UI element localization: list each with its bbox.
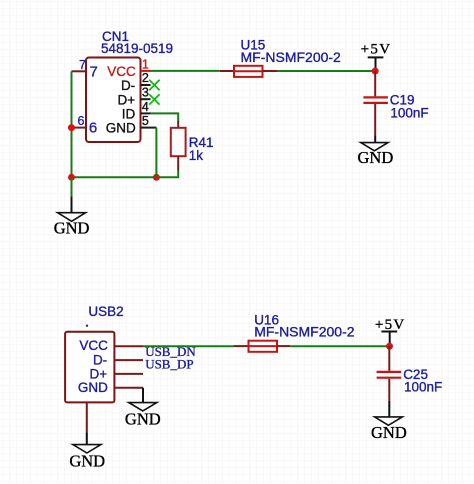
- ground bottom left symbol: [73, 445, 101, 453]
- capacitor C25 bottom lead: [388, 379, 390, 401]
- small dot marker near USB2: [86, 325, 88, 327]
- wire fuse U16 to +5V node: [290, 345, 389, 347]
- resistor R41 body: [171, 128, 186, 156]
- capacitor C25 top lead: [388, 346, 390, 371]
- capacitor C19 top lead: [374, 71, 376, 96]
- svg-text:7: 7: [79, 58, 86, 72]
- wire VCC to fuse U16: [143, 345, 234, 347]
- wire junction down to ground: [71, 177, 73, 197]
- ground under GND pin symbol: [129, 403, 157, 411]
- svg-text:USB2: USB2: [88, 304, 123, 319]
- ground under C25 stub: [388, 401, 390, 417]
- pin 4 stub: [141, 112, 151, 114]
- pin 1 stub: [141, 70, 151, 72]
- svg-text:54819-0519: 54819-0519: [101, 41, 173, 56]
- junction at pin 6: [68, 124, 75, 131]
- svg-text:7: 7: [90, 64, 98, 81]
- no-connect X on pin 2: [149, 80, 159, 90]
- fuse U16 left lead: [234, 345, 249, 347]
- svg-text:VCC: VCC: [107, 64, 136, 79]
- svg-text:ID: ID: [122, 107, 136, 122]
- capacitor C25 plates: [377, 372, 402, 378]
- pin 3 stub: [141, 98, 151, 100]
- junction at bottom left: [68, 174, 75, 181]
- junction at +5V top: [372, 68, 379, 75]
- ground under C19 stub: [374, 135, 376, 142]
- connector CN1 body: [86, 58, 141, 143]
- connector USB2 body: [65, 332, 114, 403]
- D+ pin stub of USB2: [114, 373, 143, 375]
- svg-text:2: 2: [142, 71, 149, 85]
- pin 5 stub: [141, 127, 157, 129]
- capacitor C19 bottom lead: [374, 104, 376, 135]
- svg-text:100nF: 100nF: [390, 106, 428, 121]
- svg-text:GND: GND: [69, 451, 105, 470]
- ground under CN1 symbol: [58, 213, 86, 222]
- shield pin of USB2: [86, 402, 88, 432]
- ground under C25 symbol: [375, 417, 403, 425]
- wire from pin 7 down left side: [71, 71, 73, 177]
- wire fuse U15 to +5V node: [277, 70, 375, 72]
- fuse U15 right lead: [263, 70, 278, 72]
- ground under GND pin stub: [142, 388, 144, 403]
- no-connect X on pin 3: [149, 94, 159, 104]
- svg-text:1: 1: [142, 57, 149, 71]
- ground under C19 symbol: [361, 143, 388, 151]
- fuse U15 body: [234, 66, 263, 77]
- junction below pin 5: [153, 174, 160, 181]
- svg-text:3: 3: [142, 85, 149, 99]
- svg-text:GND: GND: [371, 423, 407, 442]
- svg-text:D+: D+: [118, 92, 136, 107]
- resistor R41 bottom lead: [177, 156, 179, 170]
- svg-text:4: 4: [142, 100, 149, 114]
- power +5V top symbol: [368, 57, 384, 71]
- svg-text:+5V: +5V: [361, 42, 392, 58]
- svg-text:USB_DP: USB_DP: [145, 357, 193, 372]
- power +5V bottom symbol: [381, 332, 397, 347]
- wire from pin 4 to resistor top: [151, 113, 179, 121]
- svg-text:100nF: 100nF: [404, 380, 442, 395]
- ground bottom left stub: [86, 432, 88, 444]
- wire from pin 5 down: [155, 128, 157, 178]
- svg-text:GND: GND: [125, 409, 161, 428]
- svg-text:D-: D-: [121, 78, 135, 93]
- svg-text:GND: GND: [358, 148, 394, 167]
- fuse U16 body: [249, 341, 278, 352]
- GND pin stub of USB2: [114, 387, 143, 389]
- svg-text:GND: GND: [78, 380, 108, 395]
- pin 6 of CN1: [72, 127, 87, 129]
- svg-text:6: 6: [89, 120, 97, 137]
- ground under CN1 stub: [71, 197, 73, 213]
- svg-text:MF-NSMF200-2: MF-NSMF200-2: [241, 49, 342, 65]
- svg-text:D-: D-: [93, 352, 107, 367]
- svg-text:VCC: VCC: [79, 338, 108, 353]
- svg-text:MF-NSMF200-2: MF-NSMF200-2: [254, 323, 355, 339]
- svg-text:D+: D+: [90, 366, 108, 381]
- fuse U16 right lead: [277, 345, 290, 347]
- svg-text:5: 5: [142, 114, 149, 128]
- VCC pin stub of USB2: [114, 345, 143, 347]
- svg-text:GND: GND: [106, 121, 136, 136]
- pin 2 stub: [141, 84, 151, 86]
- wire bottom horizontal to resistor: [72, 170, 179, 178]
- junction at +5V bottom: [386, 343, 393, 350]
- svg-text:6: 6: [78, 114, 85, 128]
- D- pin stub of USB2: [114, 359, 143, 361]
- resistor R41 top lead: [177, 121, 179, 128]
- pin 7 of CN1: [72, 70, 87, 72]
- svg-text:1k: 1k: [189, 148, 204, 163]
- fuse U15 left lead: [220, 70, 234, 72]
- wire pin1 to fuse U15: [151, 70, 220, 72]
- svg-text:GND: GND: [54, 219, 90, 238]
- capacitor C19 plates: [363, 97, 388, 103]
